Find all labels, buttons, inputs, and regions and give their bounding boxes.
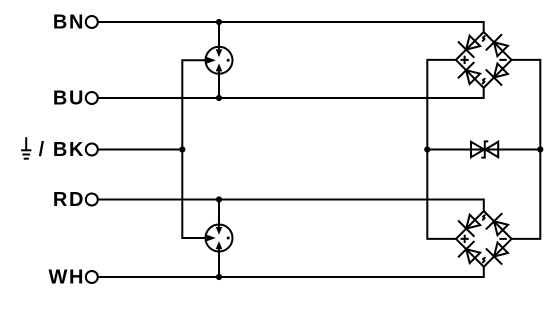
TVS suppressor diode (bidirectional) bbox=[471, 141, 498, 157]
diode V2 bottom-right (- to AC bottom) bbox=[494, 243, 508, 257]
junction plus rail / TVS bbox=[424, 146, 430, 152]
plus sign V1 bbox=[461, 56, 469, 64]
bridge rectifier V1 outline bbox=[456, 32, 512, 88]
junction RD / GDT F2 bbox=[216, 196, 222, 202]
wire BU line bbox=[97, 88, 483, 98]
AC tilde V1 top bbox=[483, 36, 485, 41]
gas discharge tube F2 (3-electrode) bbox=[205, 224, 233, 252]
diode V1 top-right (- to AC top) bbox=[494, 42, 508, 56]
wire ground rail to GDT F2 center electrode bbox=[182, 150, 219, 239]
svg-text:BU: BU bbox=[53, 88, 85, 110]
plus sign V2 bbox=[461, 235, 469, 243]
wire BK line bbox=[97, 149, 182, 151]
svg-text:RD: RD bbox=[53, 189, 85, 211]
diode V1 bottom-left (AC bottom to +) bbox=[466, 70, 480, 84]
ground symbol bbox=[21, 137, 31, 159]
junction BN / GDT F1 bbox=[216, 19, 222, 25]
wire TVS row bbox=[427, 149, 540, 151]
wire WH line bbox=[97, 267, 484, 277]
junction ground rail / BK bbox=[179, 146, 185, 152]
svg-text:/ BK: / BK bbox=[39, 139, 85, 161]
wire BN line bbox=[97, 22, 483, 32]
svg-text:WH: WH bbox=[48, 267, 85, 289]
terminal circle BK bbox=[86, 144, 98, 156]
junction minus rail / TVS bbox=[537, 146, 543, 152]
terminal circle BU bbox=[86, 92, 98, 104]
minus sign V2 bbox=[499, 238, 506, 240]
wire plus rail (bridge V1 + to bridge V2 +) bbox=[427, 60, 456, 239]
terminal circle WH bbox=[86, 271, 98, 283]
diode V2 top-right (- to AC top) bbox=[494, 221, 508, 235]
wire GDT F2 bottom lead bbox=[218, 249, 220, 277]
minus sign V1 bbox=[499, 59, 506, 61]
diode V2 top-left (AC top to +) bbox=[466, 215, 480, 229]
junction BU / GDT F1 bbox=[216, 95, 222, 101]
wire GDT F2 top lead bbox=[218, 200, 220, 228]
bridge rectifier V2 outline bbox=[456, 211, 512, 267]
terminal circle RD bbox=[86, 194, 98, 206]
wire GDT F1 center electrode to ground rail bbox=[182, 60, 219, 149]
AC tilde V1 bottom bbox=[483, 79, 485, 84]
diode V1 top-left (AC top to +) bbox=[466, 36, 480, 50]
terminal circle BN bbox=[86, 16, 98, 28]
junction WH / GDT F2 bbox=[216, 274, 222, 280]
wire minus rail (bridge V1 - to bridge V2 -) bbox=[511, 60, 540, 239]
wire GDT F1 top lead bbox=[218, 22, 220, 49]
diode V2 bottom-left (AC bottom to +) bbox=[466, 249, 480, 263]
svg-text:BN: BN bbox=[53, 12, 85, 34]
wire RD line bbox=[97, 200, 484, 212]
AC tilde V2 bottom bbox=[483, 258, 485, 263]
diode V1 bottom-right (- to AC bottom) bbox=[494, 64, 508, 78]
gas discharge tube F1 (3-electrode) bbox=[205, 46, 233, 74]
wire GDT F1 bottom lead bbox=[218, 71, 220, 98]
AC tilde V2 top bbox=[483, 215, 485, 220]
